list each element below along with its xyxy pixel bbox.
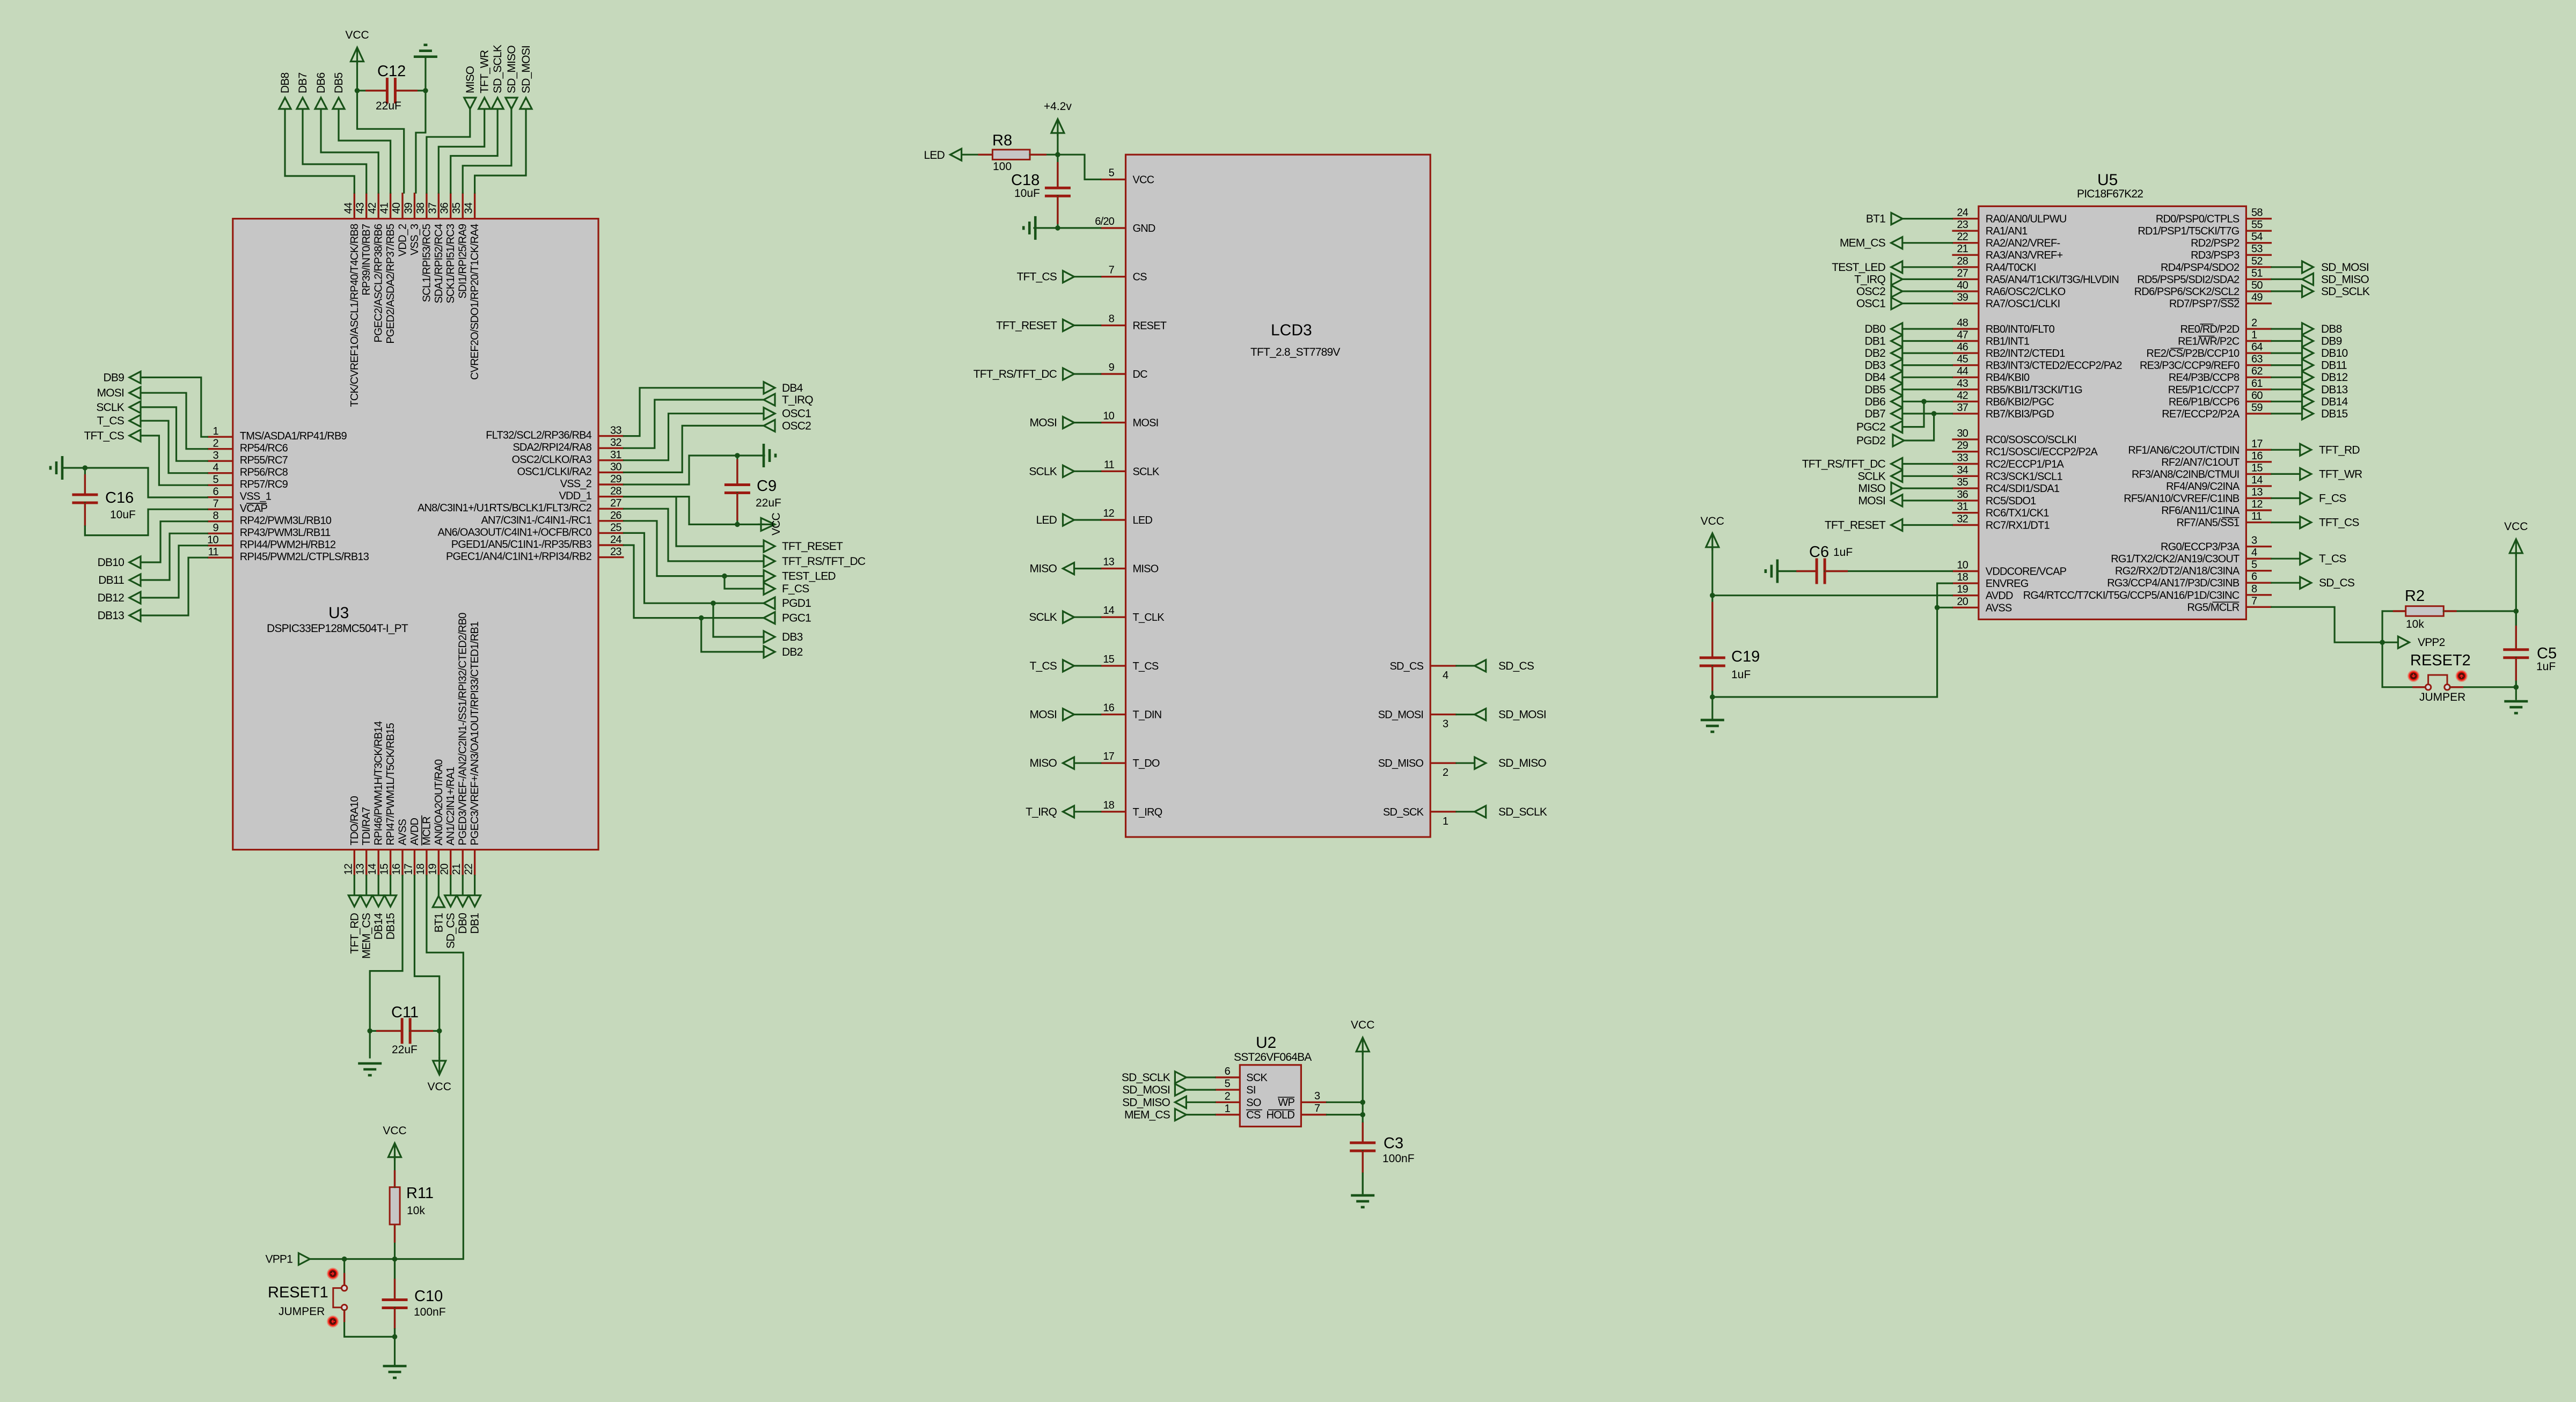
wire C11 right to VCC down arrow — [438, 1031, 440, 1058]
LCD3 pin 17 T_DO — [1101, 762, 1126, 764]
wire T_IRQ to U5 — [1902, 278, 1952, 280]
svg-text:R2: R2 — [2405, 588, 2425, 605]
svg-text:MISO: MISO — [1030, 563, 1057, 575]
U5 pin 52 RD4/PSP4/SDO2 — [2246, 266, 2272, 268]
svg-text:T_IRQ: T_IRQ — [1854, 273, 1885, 285]
terminal TEST_LED at U5 — [1891, 261, 1902, 273]
wire U2 HOLD to VCC node — [1327, 1114, 1363, 1115]
terminal SD_MISO right of U5 — [2302, 273, 2314, 285]
svg-text:RC3/SCK1/SCL1: RC3/SCK1/SCL1 — [1986, 471, 2063, 482]
svg-text:2: 2 — [213, 438, 218, 450]
svg-text:RPI47/PWM1L/T5CK/RB15: RPI47/PWM1L/T5CK/RB15 — [385, 723, 397, 845]
svg-text:PGD2: PGD2 — [1856, 435, 1885, 447]
terminal SD_CS right of U5 — [2300, 577, 2311, 589]
wire C9 bottom lead — [736, 493, 738, 525]
svg-text:TFT_RS/TFT_DC: TFT_RS/TFT_DC — [782, 555, 866, 568]
svg-text:RF7/AN5/SS1: RF7/AN5/SS1 — [2177, 517, 2240, 529]
svg-text:13: 13 — [2251, 487, 2263, 498]
U5 pin 63 RE3/P3C/CCP9/REF0 — [2246, 364, 2272, 366]
svg-text:37: 37 — [1957, 402, 1968, 414]
svg-text:RF5/AN10/CVREF/C1INB: RF5/AN10/CVREF/C1INB — [2124, 493, 2240, 505]
terminal DB11 left — [129, 574, 141, 586]
svg-text:VDD_1: VDD_1 — [559, 490, 592, 502]
svg-text:9: 9 — [213, 522, 218, 534]
svg-text:7: 7 — [213, 498, 218, 510]
wire C16 bottom to U3 pin 7 VCAP — [85, 509, 207, 535]
svg-text:SD_MISO: SD_MISO — [2321, 273, 2369, 285]
terminal T_CS at LCD3 — [1063, 660, 1074, 672]
svg-text:100nF: 100nF — [414, 1306, 446, 1318]
U3 pin 21 PGED3/VREF-/AN2/C2IN1-/SS1/RPI32/CTED2/RB0 — [462, 850, 464, 876]
wire GND node to LCD3 pin 6/20 — [1058, 227, 1101, 229]
svg-text:DB0: DB0 — [1865, 323, 1886, 335]
svg-text:60: 60 — [2251, 390, 2263, 401]
svg-text:DB12: DB12 — [2321, 371, 2347, 384]
svg-text:TFT_RESET: TFT_RESET — [996, 319, 1057, 332]
U5 pin 43 RB5/KBI1/T3CKI/T1G — [1952, 388, 1978, 390]
wire MEM_CS to U2 pin 1 — [1186, 1114, 1215, 1115]
svg-text:T_CS: T_CS — [97, 415, 125, 427]
U5 pin 23 RA1/AN1 — [1952, 230, 1978, 232]
terminal T_CS right of U5 — [2300, 553, 2311, 564]
svg-text:34: 34 — [463, 202, 475, 214]
svg-text:15: 15 — [2251, 462, 2263, 474]
svg-text:TFT_RD: TFT_RD — [2319, 444, 2360, 456]
svg-text:RP54/RC6: RP54/RC6 — [240, 443, 288, 454]
wire LCD3 pin to SD_MISO — [1457, 762, 1475, 764]
wire U5 to TFT_CS — [2272, 522, 2300, 523]
wire U5 to DB14 — [2272, 401, 2302, 402]
U3 pin 31 OSC2/CLKO/RA3 — [598, 459, 624, 461]
svg-text:17: 17 — [402, 863, 414, 875]
svg-text:SD_CS: SD_CS — [2319, 577, 2355, 589]
svg-text:RA6/OSC2/CLKO: RA6/OSC2/CLKO — [1986, 286, 2066, 298]
svg-text:49: 49 — [2251, 292, 2263, 304]
capacitor C3 plates — [1350, 1141, 1375, 1144]
wire C5 node to ground — [2515, 687, 2517, 699]
U5 pin 32 RC7/RX1/DT1 — [1952, 524, 1978, 526]
svg-text:RB5/KBI1/T3CKI/T1G: RB5/KBI1/T3CKI/T1G — [1986, 384, 2082, 396]
svg-text:14: 14 — [1103, 605, 1114, 616]
svg-text:TFT_CS: TFT_CS — [2319, 517, 2359, 529]
svg-text:40: 40 — [1957, 280, 1968, 291]
svg-text:U5: U5 — [2097, 171, 2118, 189]
junction R2/VCC — [2514, 608, 2519, 614]
svg-text:DB2: DB2 — [782, 646, 803, 658]
svg-text:RD7/PSP7/SS2: RD7/PSP7/SS2 — [2169, 298, 2240, 310]
junction C5/RESET2 — [2514, 685, 2519, 690]
power terminal VCC below C11 — [438, 1058, 440, 1075]
terminal DB12 right of U5 — [2302, 371, 2314, 383]
svg-text:PGED1/AN5/C1IN1-/RP35/RB3: PGED1/AN5/C1IN1-/RP35/RB3 — [451, 539, 592, 550]
U3 pin 7 VCAP — [207, 509, 233, 510]
ground below C3 — [1351, 1194, 1374, 1197]
svg-text:SD_SCLK: SD_SCLK — [492, 45, 504, 93]
svg-text:SD_MISO: SD_MISO — [1122, 1096, 1170, 1109]
terminal T_IRQ at U5 — [1891, 273, 1902, 285]
wire U3 pin 25 to TEST_LED — [624, 521, 764, 576]
svg-text:44: 44 — [342, 202, 354, 214]
wire SD_MISO to U2 pin 2 — [1186, 1102, 1215, 1103]
svg-text:17: 17 — [1103, 751, 1114, 762]
svg-text:6: 6 — [1225, 1066, 1231, 1077]
U5 pin 29 RC1/SOSCI/ECCP2/P2A — [1952, 451, 1978, 452]
svg-text:3: 3 — [213, 450, 218, 461]
ground left of C18 — [1034, 216, 1037, 240]
terminal MEM_CS at U2 — [1175, 1109, 1186, 1121]
wire node to LCD3 pin 5 VCC — [1058, 155, 1101, 179]
terminal DB14 right of U5 — [2302, 395, 2314, 407]
svg-text:2: 2 — [2251, 317, 2257, 329]
wire R8 right lead — [1030, 154, 1058, 156]
terminal SCLK at U5 group C — [1891, 470, 1902, 482]
svg-text:U3: U3 — [328, 604, 349, 622]
svg-text:BT1: BT1 — [1866, 213, 1885, 225]
U5 pin 58 RD0/PSP0/CTPLS — [2246, 218, 2272, 219]
wire U3 pin 28 VDD_1 to VCC terminal — [624, 497, 764, 525]
terminal MISO top — [464, 98, 476, 109]
svg-text:39: 39 — [402, 202, 414, 214]
svg-text:RC5/SDO1: RC5/SDO1 — [1986, 495, 2036, 507]
svg-text:DB10: DB10 — [98, 556, 124, 569]
U3 pin 25 AN6/OA3OUT/C4IN1+/OCFB/RC0 — [598, 532, 624, 534]
svg-text:RA2/AN2/VREF-: RA2/AN2/VREF- — [1986, 238, 2060, 249]
wire ground to GND node — [1034, 227, 1058, 229]
svg-text:DB0: DB0 — [457, 913, 469, 934]
wire C18 bottom lead — [1057, 196, 1058, 228]
wire U3 pin 12 to TFT_RD — [354, 876, 355, 894]
U5 pin 16 RF2/AN7/C1OUT — [2246, 461, 2272, 463]
U3 pin 16 AVSS — [401, 850, 403, 876]
terminal OSC2 right — [764, 420, 775, 431]
svg-text:14: 14 — [2251, 474, 2263, 486]
LCD3 pin 2 SD_MISO — [1430, 762, 1457, 764]
svg-text:6: 6 — [213, 486, 218, 498]
junction C19/ENVREG net — [1710, 694, 1715, 700]
svg-text:RD5/PSP5/SDI2/SDA2: RD5/PSP5/SDI2/SDA2 — [2137, 274, 2240, 285]
wire ground to C6 left — [1777, 570, 1796, 572]
terminal DB9 left — [129, 371, 141, 383]
svg-text:35: 35 — [451, 202, 463, 214]
svg-text:29: 29 — [610, 473, 621, 485]
U3 pin 14 RPI46/PWM1H/T3CK/RB14 — [378, 850, 379, 876]
LCD3 pin 7 CS — [1101, 276, 1126, 277]
svg-text:VDD_2: VDD_2 — [397, 224, 409, 256]
U2 pin 3 WP — [1301, 1102, 1327, 1103]
svg-text:63: 63 — [2251, 354, 2263, 365]
LCD3 pin 9 DC — [1101, 373, 1126, 375]
U3 pin 30 OSC1/CLKI/RA2 — [598, 472, 624, 473]
svg-text:2: 2 — [1225, 1090, 1231, 1102]
svg-text:DB4: DB4 — [1865, 371, 1886, 384]
RESET1 pad bottom — [327, 1316, 339, 1327]
svg-text:21: 21 — [1957, 243, 1968, 255]
terminal SD_MISO at U2 — [1175, 1096, 1186, 1108]
U5 pin 61 RE5/P1C/CCP7 — [2246, 388, 2272, 390]
U3 pin 20 AN1/C2IN1+/RA1 — [450, 850, 451, 876]
svg-text:MOSI: MOSI — [1030, 709, 1057, 721]
svg-text:12: 12 — [2251, 498, 2263, 510]
terminal TFT_RS/TFT_DC at LCD3 — [1063, 368, 1074, 380]
svg-text:DB8: DB8 — [2321, 323, 2342, 335]
svg-text:BT1: BT1 — [433, 913, 445, 933]
terminal OSC2 at U5 — [1891, 285, 1902, 297]
svg-text:AN8/C3IN1+/U1RTS/BCLK1/FLT3/RC: AN8/C3IN1+/U1RTS/BCLK1/FLT3/RC2 — [418, 502, 592, 514]
svg-text:DB4: DB4 — [782, 382, 803, 394]
wire MISO to U5 — [1902, 487, 1952, 489]
overline WR on RE1 name — [2198, 336, 2214, 337]
svg-text:SD_CS: SD_CS — [445, 913, 457, 949]
U5 pin 22 RA2/AN2/VREF- — [1952, 242, 1978, 244]
svg-text:DB9: DB9 — [104, 371, 125, 384]
U5 pin 18 ENVREG — [1952, 582, 1978, 584]
wire TEST_LED to U5 — [1902, 266, 1952, 268]
junction C12 right — [423, 88, 428, 93]
svg-text:DB6: DB6 — [315, 72, 327, 93]
svg-text:10k: 10k — [407, 1205, 425, 1217]
svg-text:27: 27 — [610, 497, 621, 509]
svg-text:C6: C6 — [1809, 544, 1829, 561]
IC U3 DSPIC33EP128MC504T-I_PT body — [233, 219, 598, 850]
wire VPP2 node up to R2 — [2382, 611, 2383, 642]
U5 pin 59 RE7/ECCP2/P2A — [2246, 413, 2272, 414]
svg-text:RESET2: RESET2 — [2410, 652, 2471, 669]
U5 pin 50 RD6/PSP6/SCK2/SCL2 — [2246, 290, 2272, 292]
svg-text:RB4/KBI0: RB4/KBI0 — [1986, 372, 2030, 384]
svg-text:TFT_2.8_ST7789V: TFT_2.8_ST7789V — [1250, 346, 1340, 358]
wire VCC down to AVDD node — [1711, 547, 1713, 596]
svg-text:10uF: 10uF — [110, 509, 136, 521]
svg-text:22: 22 — [463, 863, 475, 875]
svg-text:JUMPER: JUMPER — [2419, 691, 2465, 703]
svg-text:C5: C5 — [2537, 645, 2557, 662]
wire U5 to T_CS — [2272, 558, 2300, 560]
U5 pin 17 RF1/AN6/C2OUT/CTDIN — [2246, 449, 2272, 451]
svg-text:20: 20 — [439, 863, 451, 875]
svg-text:14: 14 — [367, 863, 378, 875]
svg-text:DB3: DB3 — [1865, 359, 1886, 372]
terminal SD_SCLK at U2 — [1175, 1071, 1186, 1083]
svg-text:1uF: 1uF — [2536, 660, 2556, 673]
terminal SD_SCLK right of LCD3 — [1475, 806, 1486, 818]
svg-text:PGED3/VREF-/AN2/C2IN1-/SS1/RPI: PGED3/VREF-/AN2/C2IN1-/SS1/RPI32/CTED2/R… — [457, 613, 469, 846]
svg-text:VPP1: VPP1 — [266, 1253, 293, 1266]
svg-text:SD_MISO: SD_MISO — [1498, 757, 1546, 769]
power terminal VCC top — [356, 48, 358, 65]
LCD3 pin 8 RESET — [1101, 325, 1126, 326]
RESET2 pad right — [2456, 670, 2468, 682]
wire C16 top node to U3 pin 6 VSS_1 — [85, 468, 207, 497]
svg-text:RA0/AN0/ULPWU: RA0/AN0/ULPWU — [1986, 214, 2067, 225]
U3 pin 5 RP57/RC9 — [207, 485, 233, 486]
wire TFT_RESET from U3 pin 28 — [624, 497, 764, 546]
wire U3 pin 29 VSS_2 to ground node — [624, 456, 737, 485]
terminal MEM_CS at U5 — [1891, 237, 1902, 249]
svg-text:DB9: DB9 — [2321, 335, 2342, 348]
junction DB7/PGD2 — [1931, 411, 1937, 416]
terminal SD_CS right of LCD3 — [1475, 660, 1486, 672]
terminal SD_MOSI at U2 — [1175, 1084, 1186, 1096]
terminal TFT_RESET at LCD3 — [1063, 319, 1074, 331]
svg-text:29: 29 — [1957, 440, 1968, 452]
terminal SD_CS bottom — [445, 895, 457, 907]
IC U2 SST26VF064BA body — [1240, 1065, 1301, 1127]
svg-text:PGEC3/VREF+/AN3/OA1OUT/RPI33/C: PGEC3/VREF+/AN3/OA1OUT/RPI33/CTED1/RB1 — [469, 621, 481, 846]
wire MISO to LCD3 pin 17 — [1074, 762, 1101, 764]
junction C16 top — [83, 465, 88, 471]
terminal TFT_CS at LCD3 — [1063, 271, 1074, 283]
svg-text:8: 8 — [1109, 313, 1115, 325]
svg-text:55: 55 — [2251, 219, 2263, 231]
svg-text:10uF: 10uF — [1014, 187, 1040, 200]
terminal DB7 at U5 — [1891, 408, 1902, 420]
svg-text:MISO: MISO — [1858, 482, 1886, 495]
svg-text:DB7: DB7 — [297, 72, 309, 93]
U3 pin 42 PGEC2/ASCL2/RP38/RB6 — [378, 193, 379, 219]
junction C9 top — [735, 453, 740, 458]
wire MEM_CS to U5 — [1902, 242, 1952, 244]
overline CS on RE2 name — [2170, 348, 2183, 349]
svg-text:RB3/INT3/CTED2/ECCP2/PA2: RB3/INT3/CTED2/ECCP2/PA2 — [1986, 360, 2123, 372]
U3 pin 18 MCLR — [426, 850, 427, 876]
terminal SD_MISO top — [506, 98, 517, 109]
wire C16 top lead — [84, 468, 86, 495]
LCD3 pin 15 T_CS — [1101, 665, 1126, 666]
IC LCD3 TFT_2.8_ST7789V body — [1126, 155, 1431, 837]
svg-text:RP43/PWM3L/RB11: RP43/PWM3L/RB11 — [240, 527, 331, 539]
power terminal VCC left of U5 — [1711, 533, 1713, 550]
svg-text:8: 8 — [2251, 583, 2257, 595]
svg-text:35: 35 — [1957, 476, 1968, 488]
wire T_IRQ from U3 pin 32 — [624, 400, 764, 448]
svg-text:VSS_2: VSS_2 — [560, 478, 592, 490]
svg-text:MEM_CS: MEM_CS — [361, 913, 373, 959]
svg-text:LED: LED — [924, 149, 945, 162]
wire SCLK to U5 — [1902, 475, 1952, 477]
svg-text:C9: C9 — [757, 478, 777, 495]
ground below C10 — [383, 1365, 407, 1368]
svg-text:U2: U2 — [1256, 1034, 1276, 1052]
svg-text:JUMPER: JUMPER — [279, 1305, 325, 1318]
svg-text:20: 20 — [1957, 596, 1968, 607]
wire VPP2 node down to RESET2 — [2382, 642, 2425, 687]
U3 pin 12 TDO/RA10 — [354, 850, 355, 876]
U5 pin 15 RF3/AN8/C2INB/CTMUI — [2246, 473, 2272, 475]
terminal DB4 at U5 — [1891, 371, 1902, 383]
svg-text:7: 7 — [2251, 595, 2257, 607]
wire DB5 to U5 — [1902, 388, 1952, 390]
terminal DB8 — [279, 98, 291, 109]
wire +4.2v down to R8 node — [1057, 133, 1058, 155]
wire SCLK to U3 pin 3 — [141, 407, 207, 461]
svg-text:RD3/PSP3: RD3/PSP3 — [2191, 249, 2240, 261]
wire VCC to C12 left node — [356, 61, 358, 91]
svg-text:TFT_CS: TFT_CS — [1016, 271, 1057, 283]
svg-text:22uF: 22uF — [392, 1044, 418, 1056]
svg-text:RF3/AN8/C2INB/CTMUI: RF3/AN8/C2INB/CTMUI — [2132, 468, 2239, 480]
svg-text:VCC: VCC — [383, 1125, 406, 1137]
wire C3 bottom lead — [1362, 1151, 1364, 1193]
svg-text:MISO: MISO — [464, 66, 477, 93]
svg-text:CS: CS — [1246, 1110, 1261, 1121]
RESET1 pad top — [327, 1268, 339, 1280]
svg-text:47: 47 — [1957, 329, 1968, 341]
wire TFT_RS/TFT_DC from U3 pin 27 — [624, 509, 764, 561]
terminal DB7 — [297, 98, 309, 109]
U5 pin 12 RF6/AN11/C1INA — [2246, 509, 2272, 511]
svg-text:SCLK: SCLK — [1029, 611, 1057, 623]
LCD3 pin 1 SD_SCK — [1430, 811, 1457, 812]
svg-text:C11: C11 — [391, 1004, 419, 1021]
wire RESET2 to C5 node — [2450, 686, 2516, 688]
U2 pin 2 SO — [1215, 1102, 1240, 1103]
svg-text:TFT_RESET: TFT_RESET — [782, 540, 843, 553]
U3 pin 43 RP39/INT0/RB7 — [365, 193, 367, 219]
svg-text:SST26VF064BA: SST26VF064BA — [1234, 1051, 1312, 1063]
junction VCC/AVDD — [1710, 593, 1715, 598]
svg-text:RB6/KBI2/PGC: RB6/KBI2/PGC — [1986, 396, 2054, 408]
svg-text:R8: R8 — [992, 132, 1012, 149]
svg-text:SD_SCLK: SD_SCLK — [1498, 806, 1547, 818]
svg-text:SD_MISO: SD_MISO — [506, 46, 518, 93]
svg-text:RB7/KBI3/PGD: RB7/KBI3/PGD — [1986, 408, 2054, 420]
U3 pin 29 VSS_2 — [598, 483, 624, 485]
svg-text:10: 10 — [1103, 410, 1114, 422]
svg-text:RF1/AN6/C2OUT/CTDIN: RF1/AN6/C2OUT/CTDIN — [2128, 444, 2239, 456]
U3 pin 27 AN8/C3IN1+/U1RTS/BCLK1/FLT3/RC2 — [598, 508, 624, 510]
wire C19 bottom — [1711, 692, 1713, 697]
wire R2 left lead — [2382, 610, 2406, 612]
wire junction to F_CS — [724, 576, 764, 589]
U2 pin 1 CS — [1215, 1114, 1240, 1115]
capacitor C6 plates — [1816, 559, 1818, 584]
U3 pin 33 FLT32/SCL2/RP36/RB4 — [598, 435, 624, 437]
svg-text:T_IRQ: T_IRQ — [1026, 806, 1057, 818]
svg-text:18: 18 — [415, 863, 427, 875]
wire R11 top lead — [394, 1156, 396, 1187]
svg-text:5: 5 — [1225, 1078, 1231, 1090]
svg-text:TEST_LED: TEST_LED — [782, 570, 836, 583]
terminal T_IRQ right — [764, 394, 775, 406]
svg-text:DB5: DB5 — [1865, 384, 1886, 396]
svg-text:DB15: DB15 — [2321, 408, 2347, 420]
svg-text:C18: C18 — [1011, 172, 1040, 189]
svg-text:16: 16 — [2251, 450, 2263, 462]
ground below C19 — [1701, 719, 1724, 722]
wire C6 left lead — [1777, 570, 1817, 572]
power terminal VCC above U2 — [1362, 1038, 1364, 1055]
svg-text:SCLK: SCLK — [1029, 465, 1057, 478]
wire ground to C16 top — [62, 467, 85, 468]
wire LCD3 pin to SD_MOSI — [1457, 714, 1475, 715]
U5 pin 35 RC4/SDI1/SDA1 — [1952, 487, 1978, 489]
svg-text:11: 11 — [208, 546, 219, 558]
svg-text:RE5/P1C/CCP7: RE5/P1C/CCP7 — [2168, 384, 2240, 396]
svg-text:17: 17 — [2251, 438, 2263, 450]
junction PGD1/DB3 — [711, 600, 716, 606]
svg-text:MISO: MISO — [1133, 563, 1159, 575]
wire DB0 to U5 — [1902, 328, 1952, 329]
terminal OSC1 right — [764, 408, 775, 420]
capacitor C9 plates — [724, 483, 750, 486]
svg-text:VCC: VCC — [770, 512, 782, 535]
terminal LED left of R8 — [950, 149, 962, 160]
wire junction to DB3 — [713, 603, 764, 637]
svg-text:15: 15 — [1103, 654, 1114, 665]
svg-text:DB11: DB11 — [98, 574, 124, 586]
svg-text:RA7/OSC1/CLKI: RA7/OSC1/CLKI — [1986, 298, 2060, 310]
U5 pin 55 RD1/PSP1/T5CKI/T7G — [2246, 230, 2272, 232]
